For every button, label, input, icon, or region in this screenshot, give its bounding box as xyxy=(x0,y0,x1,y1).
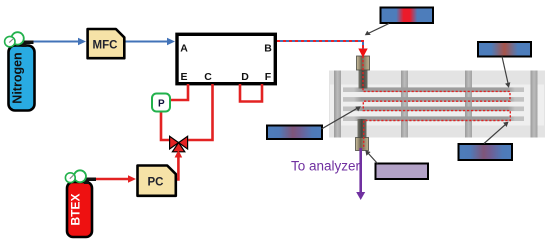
valve right triangle xyxy=(179,136,188,149)
pointer arrow from bottom right label xyxy=(484,124,506,144)
svg-text:E: E xyxy=(180,71,187,83)
tube 4 xyxy=(343,116,524,121)
outlet ferrule dark stem xyxy=(358,119,367,138)
svg-text:P: P xyxy=(158,99,165,110)
nitrogen regulator big dial xyxy=(11,32,23,44)
svg-text:BTEX: BTEX xyxy=(69,193,83,225)
label box: outlet (lavender) xyxy=(376,164,429,180)
arrowhead into PC xyxy=(128,175,136,183)
inlet ferrule xyxy=(357,56,370,70)
svg-text:MFC: MFC xyxy=(93,40,118,52)
oven clamp band 1 xyxy=(334,71,341,138)
red arrowhead into injector xyxy=(358,49,367,58)
label box: bottom right (blue/purple) xyxy=(459,144,513,160)
nitrogen regulator needle xyxy=(9,39,13,43)
outlet purple arrow to analyzer xyxy=(359,148,362,193)
BTEX regulator big dial xyxy=(74,170,86,182)
svg-text:To analyzer: To analyzer xyxy=(291,159,361,174)
wire: port E to gauge P (red) xyxy=(171,84,188,100)
pointer arrow from right trap label xyxy=(502,57,508,85)
pointer arrowhead 2 xyxy=(505,82,510,88)
pressure gauge P xyxy=(152,94,170,112)
outlet ferrule xyxy=(356,138,369,151)
pointer arrow from injection label xyxy=(367,24,389,35)
nitrogen regulator small dial xyxy=(5,36,15,46)
oven clamp band 4 xyxy=(531,71,538,138)
oven clamp band 3 xyxy=(465,71,472,138)
BTEX cylinder xyxy=(67,182,92,237)
pointer arrowhead 5 xyxy=(365,150,370,156)
valve box U1 xyxy=(177,34,275,83)
label box: left middle (blue/purple) xyxy=(267,126,322,140)
svg-text:B: B xyxy=(264,43,272,55)
3-way valve body xyxy=(170,136,188,152)
svg-text:F: F xyxy=(265,71,272,83)
wire: port B to injector (blue solid) xyxy=(277,41,363,49)
tube 1 xyxy=(343,87,524,92)
wire: BTEX to PC (red) xyxy=(95,178,129,181)
wire: ports D-F U loop (red) xyxy=(240,84,262,102)
svg-text:Nitrogen: Nitrogen xyxy=(11,52,25,103)
oven lighter tube zone xyxy=(330,85,544,126)
pointer arrowhead 1 xyxy=(365,31,371,36)
purple arrowhead xyxy=(356,192,365,200)
pointer arrow from outlet label xyxy=(368,153,378,164)
svg-text:PC: PC xyxy=(148,177,164,189)
wire: nitrogen to MFC (blue) xyxy=(32,41,79,43)
arrowhead into MFC xyxy=(78,38,86,46)
valve bottom triangle xyxy=(172,143,184,152)
pointer arrow from left middle label xyxy=(322,108,359,129)
label box: trap heater right (blue/red soft) xyxy=(478,42,531,57)
pointer arrowhead 4 xyxy=(503,122,509,127)
pointer arrowhead 3 xyxy=(355,106,361,111)
svg-text:A: A xyxy=(180,43,188,55)
wire: port B to injector (red dashed overlay) xyxy=(277,41,363,49)
BTEX regulator needle xyxy=(70,175,74,179)
BTEX cap xyxy=(84,178,97,185)
wire: gauge P to valve (red) xyxy=(161,112,170,140)
tube 2 xyxy=(343,97,524,102)
tube 3 xyxy=(343,107,524,112)
label box: injection heater (blue/red) xyxy=(381,8,434,24)
inlet ferrule dark stem xyxy=(359,70,368,89)
wire: MFC to valve box (blue) xyxy=(125,41,168,43)
BTEX regulator small dial xyxy=(65,173,75,183)
oven clamp band 2 xyxy=(401,71,408,138)
nitrogen cylinder xyxy=(9,46,35,111)
PC controller box xyxy=(138,166,176,196)
MFC controller box xyxy=(88,29,125,58)
wire: port C down to valve (red) xyxy=(188,84,213,140)
svg-text:D: D xyxy=(241,71,249,83)
capillary serpentine (red dashed) xyxy=(363,52,510,149)
arrowhead into valve box xyxy=(167,38,175,46)
valve left triangle xyxy=(170,136,179,149)
wire: PC up into valve (red) xyxy=(177,156,179,179)
oven body xyxy=(329,71,545,138)
arrowhead into valve from PC xyxy=(175,150,183,158)
nitrogen cap xyxy=(21,41,34,48)
svg-text:C: C xyxy=(204,71,212,83)
